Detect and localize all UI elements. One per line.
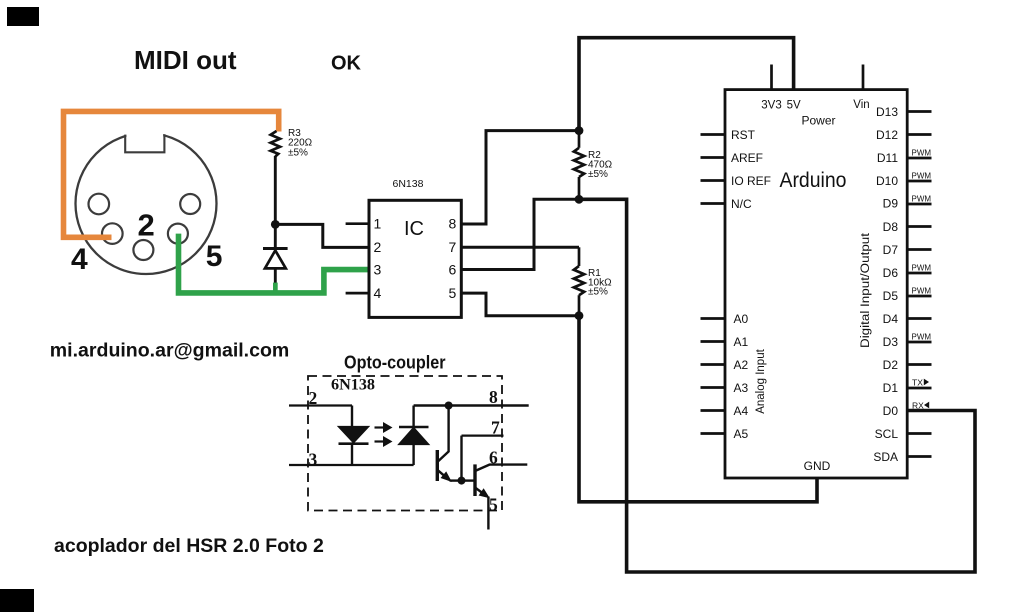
wire IC pin6 to node B: [461, 199, 577, 269]
svg-text:PWM: PWM: [912, 264, 932, 273]
svg-text:D8: D8: [883, 220, 899, 234]
svg-text:±5%: ±5%: [588, 287, 608, 298]
resistor R3 zigzag: [271, 131, 280, 157]
svg-text:2: 2: [138, 207, 155, 242]
svg-text:D2: D2: [883, 358, 899, 372]
node B dot (R2 bottom): [575, 195, 584, 204]
corner artifact top-left: [7, 7, 39, 26]
svg-text:4: 4: [374, 285, 382, 301]
svg-text:Vin: Vin: [853, 99, 869, 111]
svg-text:4: 4: [71, 243, 88, 276]
svg-text:Analog Input: Analog Input: [755, 348, 767, 413]
svg-text:mi.arduino.ar@gmail.com: mi.arduino.ar@gmail.com: [50, 340, 289, 362]
3V3 stub: [770, 65, 773, 90]
opto transistor Q2: [462, 464, 528, 497]
svg-text:±5%: ±5%: [588, 169, 608, 180]
wire IC pin7 to R1 top: [461, 246, 579, 249]
IC pin1 stub: [346, 222, 369, 225]
svg-text:D1: D1: [883, 381, 899, 395]
Arduino left pin stubs: RST AREF IOREF N/C A0-A5: [701, 135, 726, 434]
svg-text:D0: D0: [883, 404, 899, 418]
svg-text:3V3: 3V3: [761, 99, 781, 111]
Vin stub: [862, 65, 865, 90]
svg-text:8: 8: [449, 216, 457, 232]
wire node C to GND: [579, 316, 817, 502]
svg-text:8: 8: [489, 387, 498, 407]
svg-text:GND: GND: [804, 459, 831, 473]
Arduino board U2 box: [725, 90, 907, 478]
svg-text:D5: D5: [883, 289, 899, 303]
svg-text:D10: D10: [876, 174, 898, 188]
svg-text:5: 5: [489, 495, 498, 515]
svg-text:PWM: PWM: [912, 149, 932, 158]
svg-text:acoplador del HSR 2.0 Foto 2: acoplador del HSR 2.0 Foto 2: [54, 535, 324, 557]
svg-text:A3: A3: [734, 381, 749, 395]
diode D1 (cathode bar up): [263, 224, 288, 287]
wire junction to IC pin2: [275, 224, 369, 247]
svg-text:AREF: AREF: [731, 151, 763, 165]
svg-text:RST: RST: [731, 128, 756, 142]
svg-text:5: 5: [206, 240, 223, 273]
green wire stub over diode bottom: [273, 283, 278, 292]
svg-text:7: 7: [449, 239, 457, 255]
PWM markers: [912, 149, 932, 342]
opto pin7 rail: [462, 436, 504, 481]
svg-text:±5%: ±5%: [288, 147, 308, 158]
svg-text:5V: 5V: [787, 99, 801, 111]
svg-text:1: 1: [374, 216, 382, 232]
svg-text:PWM: PWM: [912, 195, 932, 204]
resistor R2: [574, 131, 584, 200]
svg-text:IC: IC: [404, 218, 424, 240]
opto transistor Q1: [437, 406, 461, 482]
svg-text:6N138: 6N138: [393, 178, 424, 190]
svg-text:OK: OK: [331, 53, 362, 75]
MIDI DIN connector J1 body: [76, 124, 217, 274]
node A dot (R2 top): [575, 126, 584, 135]
svg-text:Power: Power: [802, 113, 836, 127]
opto pin8 rail: [414, 404, 529, 406]
svg-text:A4: A4: [734, 404, 749, 418]
opto light arrows: [375, 423, 392, 446]
DIN pin holes: [89, 194, 201, 260]
svg-text:TX: TX: [912, 377, 923, 387]
svg-text:D4: D4: [883, 312, 899, 326]
svg-text:D13: D13: [876, 105, 898, 119]
svg-text:N/C: N/C: [731, 197, 752, 211]
wire node B to RX D0: [581, 199, 975, 572]
wire IC pin5 to node C: [461, 293, 579, 316]
svg-text:Opto-coupler: Opto-coupler: [344, 352, 446, 373]
node junction dot at diode top: [271, 220, 280, 229]
svg-text:6N138: 6N138: [331, 377, 375, 394]
svg-text:6: 6: [489, 448, 498, 468]
svg-text:Digital Input/Output: Digital Input/Output: [860, 232, 872, 348]
resistor R1: [574, 247, 584, 315]
orange wire (DIN pin4 to R3): [64, 111, 279, 237]
svg-text:2: 2: [309, 388, 318, 408]
right pin labels: [873, 105, 898, 464]
svg-text:A2: A2: [734, 358, 749, 372]
svg-text:SCL: SCL: [875, 427, 899, 441]
opto-coupler IC U1 box: [369, 200, 461, 317]
svg-text:SDA: SDA: [873, 450, 898, 464]
svg-text:2: 2: [374, 239, 382, 255]
svg-text:D6: D6: [883, 266, 899, 280]
svg-text:RX: RX: [912, 400, 924, 410]
svg-text:D9: D9: [883, 196, 899, 210]
opto LED: [339, 406, 369, 466]
IC pin4 stub: [346, 292, 369, 295]
node C dot (R1 bottom): [575, 311, 584, 320]
svg-text:5: 5: [449, 285, 457, 301]
svg-text:PWM: PWM: [912, 172, 932, 181]
wire node A to 5V pin: [579, 38, 794, 128]
opto dashed box: [308, 376, 502, 511]
svg-text:MIDI out: MIDI out: [134, 45, 237, 75]
svg-text:7: 7: [491, 418, 500, 438]
svg-text:PWM: PWM: [912, 287, 932, 296]
svg-text:D11: D11: [877, 151, 898, 165]
opto pin2 rail: [289, 404, 352, 406]
Arduino right pin stubs D13-D0 SCL SDA: [907, 112, 931, 457]
svg-text:D3: D3: [883, 335, 899, 349]
svg-text:PWM: PWM: [912, 333, 932, 342]
opto base junction dot: [458, 477, 466, 485]
svg-text:6: 6: [449, 262, 457, 278]
svg-text:D12: D12: [876, 128, 898, 142]
svg-text:IO REF: IO REF: [731, 174, 771, 188]
svg-text:Arduino: Arduino: [780, 168, 847, 192]
svg-text:3: 3: [309, 450, 318, 470]
wire IC pin8 to R2 top: [461, 131, 577, 224]
opto pin3 rail: [289, 464, 414, 466]
opto pin5 lead: [487, 497, 489, 530]
svg-text:3: 3: [374, 262, 382, 278]
opto photodiode: [399, 406, 429, 466]
corner artifact bottom-left: [0, 589, 34, 612]
svg-text:A1: A1: [734, 335, 749, 349]
green wire (DIN pin5 to IC pin3): [179, 234, 370, 293]
svg-text:D7: D7: [883, 243, 899, 257]
opto pin8 junction dot: [445, 402, 453, 410]
svg-text:A5: A5: [734, 427, 749, 441]
wire R3 to junction: [274, 156, 277, 224]
svg-text:A0: A0: [734, 312, 749, 326]
